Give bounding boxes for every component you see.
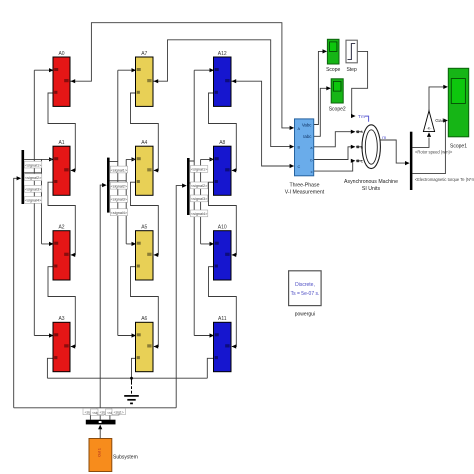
node column2 signal tag signal3 [110,196,128,203]
node column3 signal tag signal2 [191,182,209,189]
node column1 signal tag signal2 [25,174,43,181]
svg-text:b: b [310,159,312,163]
wire machine m to demux [380,140,408,163]
wire A2 emitter to A3 collector [48,267,75,347]
svg-text:powergui: powergui [295,312,315,318]
svg-text:-K-: -K- [427,126,433,130]
block Asynchronous Machine U1 [356,114,386,168]
svg-text:<sig1>: <sig1> [114,410,124,414]
wire demux1 output2 stub [24,172,41,174]
node Scope input arrowhead [323,49,328,53]
wire column2 gate signal to A7 and A6 [118,70,135,335]
svg-text:Tm: Tm [358,114,365,120]
svg-text:Scope2: Scope2 [329,107,346,113]
svg-text:A8: A8 [219,140,225,146]
wire demux1 output1 stub [24,158,52,160]
node column1 gate arrowheads rows 2,3 [49,157,54,246]
node phase-B arrowheads [154,79,295,149]
wire subsystem demux stub 1 [89,408,91,420]
svg-text:<signal2>: <signal2> [111,185,128,189]
demux D3 column 3 [187,158,190,215]
svg-text:A10: A10 [218,225,227,231]
svg-text:Iabc: Iabc [303,134,312,139]
node column2 signal tag signal2 [110,182,128,189]
node column2 signal tag signal4 [110,209,128,216]
node phase-C arrowheads [232,79,295,168]
svg-text:C: C [361,159,364,163]
svg-text:Out 1: Out 1 [98,448,102,457]
wire column3 gate signal to A8 and A10 [201,159,213,244]
wire neutral line [47,377,207,379]
wire phase-A net: A0 collector to V-I port A [70,23,293,128]
node A4 collector arrowhead [154,168,159,172]
wire A6 emitter to neutral [132,358,136,378]
wire gate bus riser to demux2 input [100,185,103,420]
node A1 collector arrowhead [71,168,76,172]
wire demux2 output2 stub [110,180,127,182]
wire rotor speed to Gain [412,138,429,148]
block A7 bridge arm [136,51,154,107]
svg-text:c: c [311,170,313,174]
wire subsystem demux stub 3 [109,408,111,420]
block A11 bridge arm [214,316,232,372]
block A2 bridge arm [53,225,70,281]
wire column1 gate signal to A0 and A3 [34,70,52,335]
svg-text:Vabc: Vabc [302,122,312,127]
svg-text:A2: A2 [58,225,64,231]
svg-text:A6: A6 [141,316,147,322]
wire Gain to Scope1 input 1 [429,87,446,111]
block powergui [289,271,322,306]
svg-text:<signal4>: <signal4> [191,212,208,216]
node subsystem demux arrowhead [98,425,102,430]
svg-text:<signal1>: <signal1> [111,168,128,172]
node column3 gate arrowheads rows 1,4 [210,68,215,338]
demux D5 gate distribution [86,420,116,425]
svg-text:<signal3>: <signal3> [111,198,128,202]
wire phase-B net: A7 collector to V-I port B [153,40,293,147]
svg-text:Ts = 5e-07 s.: Ts = 5e-07 s. [291,291,320,297]
wire A12 emitter to A8 collector [209,93,237,170]
block A4 bridge arm [136,140,154,195]
node column2 signal tag signal1 [110,166,128,173]
demux D4 machine measurement [410,132,413,190]
node A6 collector arrowhead [154,344,159,348]
block Subsystem [89,439,112,472]
wire column2 gate signal to A4 and A5 [126,159,134,244]
svg-text:Asynchronous Machine: Asynchronous Machine [344,179,398,185]
wire A3 emitter to neutral [47,358,53,378]
node A2 collector arrowhead [71,253,76,257]
svg-text:Scope1: Scope1 [450,144,467,150]
block A0 bridge arm [53,51,70,107]
node column1 signal tag signal1 [25,161,43,168]
svg-text:Discrete,: Discrete, [295,282,315,288]
node column2 gate arrowheads rows 2,3 [132,157,137,246]
svg-text:A0: A0 [58,51,64,57]
node V-I measurement label [285,183,325,196]
block A12 bridge arm [214,51,232,107]
demux D2 column 2 [107,158,110,213]
wire Step to machine Tm [352,51,368,116]
gain Gain [423,111,434,132]
node A10 collector arrowhead [232,253,237,257]
node neutral junction [130,377,133,380]
node column3 signal tag signal1 [191,166,209,173]
wire Subsystem output to demux bar [99,428,101,439]
svg-text:C: C [298,165,301,169]
wire A11 emitter to neutral [207,358,213,378]
svg-text:<signal2>: <signal2> [25,176,42,180]
node A3 collector arrowhead [71,344,76,348]
block A10 bridge arm [214,225,232,281]
svg-text:<signal2>: <signal2> [191,184,208,188]
block A6 bridge arm [136,316,154,372]
scope Scope1 [448,68,468,137]
wire gate bus riser to demux1 input [14,178,18,407]
svg-text:A7: A7 [141,51,147,57]
node bottom overlapping signal tags [83,408,126,415]
wire gate bus riser to demux3 input [176,186,183,408]
demux D1 column 1 [22,150,25,204]
wire bottom gate bus [14,407,177,409]
wire A4 emitter to A5 collector [131,182,159,255]
scope Scope2 [331,79,343,103]
svg-text:Scope: Scope [326,67,340,73]
svg-text:A11: A11 [218,316,227,322]
wire torque to Scope1 input 2 [412,121,446,174]
node column3 gate arrowheads rows 2,3 [210,157,215,246]
svg-text:Three-Phase: Three-Phase [290,183,320,189]
node A5 collector arrowhead [154,253,159,257]
node machine B arrowhead [351,145,356,149]
svg-text:<Electromagnetic torque Te (N*: <Electromagnetic torque Te (N*m)> [415,177,474,182]
svg-text:Subsystem: Subsystem [113,454,138,460]
block A3 bridge arm [53,316,70,372]
block A5 bridge arm [136,225,154,281]
wire demux3 output1 stub [190,159,213,161]
node column1 signal tag signal3 [25,185,43,192]
wire demux2 output1 stub [110,159,135,161]
node Scope1 input2 arrowhead [443,118,448,122]
node column3 signal tag signal3 [191,195,209,202]
svg-text:<signal3>: <signal3> [25,188,42,192]
svg-text:V-I Measurement: V-I Measurement [285,190,325,196]
svg-text:A4: A4 [141,140,147,146]
svg-text:m: m [382,136,386,141]
node demux2 input arrowhead [102,183,107,187]
wire A5 emitter to A6 collector [131,267,159,347]
node column2 gate arrowheads rows 1,4 [132,68,137,338]
node column3 signal tag signal4 [191,210,209,217]
wire column3 gate signal to A12 and A11 [194,70,212,335]
svg-text:<signal1>: <signal1> [191,168,208,172]
node phase-A arrowheads [71,79,295,130]
node Scope1 input1 arrowhead [443,85,448,89]
node A8 collector arrowhead [232,168,237,172]
wire column1 gate signal to A1 and A2 [42,159,53,244]
svg-text:A3: A3 [58,316,64,322]
node measurement demux input arrowhead [405,161,410,165]
svg-text:<Rotor speed (wm)>: <Rotor speed (wm)> [415,149,453,154]
wire A0 emitter to A1 collector [48,93,75,170]
wire demux3 output2 stub [190,182,201,184]
svg-text:<signal4>: <signal4> [111,211,128,215]
svg-text:A12: A12 [218,51,227,57]
svg-text:Gain: Gain [435,118,445,124]
svg-text:Step: Step [346,67,357,73]
wire V-I b to machine B [314,147,355,160]
ground [124,378,139,403]
wire Iabc to Scope2 [314,88,330,136]
node machine A arrowhead [351,130,356,134]
node A11 collector arrowhead [232,344,237,348]
node column1 signal tag signal4 [25,197,43,204]
svg-text:<signal1>: <signal1> [25,163,42,167]
wire A1 emitter to A2 collector [48,182,75,255]
wire phase-C net: A12 collector to V-I port C [231,81,293,166]
svg-text:SI Units: SI Units [362,186,381,192]
wire A7 emitter to A4 collector [131,93,159,170]
node machine C arrowhead [351,159,356,163]
svg-text:<signal4>: <signal4> [25,199,42,203]
node machine Tm arrowhead [351,114,356,118]
node column1 gate arrowheads rows 1,4 [49,68,54,338]
block A8 bridge arm [214,140,232,195]
scope Scope [327,39,339,64]
block A1 bridge arm [53,140,70,195]
node demux3 input arrowhead [182,184,187,188]
wire A8 emitter to A10 collector [209,182,237,255]
wire V-I c to machine C [314,161,355,171]
svg-text:A5: A5 [141,225,147,231]
svg-text:<signal3>: <signal3> [191,197,208,201]
node Gain input arrowhead [427,132,431,137]
node demux1 input arrowhead [17,176,22,180]
block Step source [346,40,357,63]
svg-text:A1: A1 [58,140,64,146]
node machine label [344,179,398,192]
wire Vabc to Scope [314,51,326,124]
block Three-Phase V-I Measurement [295,119,314,176]
wire V-I a to machine A [314,132,355,147]
wire A10 emitter to A11 collector [209,267,237,347]
node Scope2 input arrowhead [326,86,331,90]
